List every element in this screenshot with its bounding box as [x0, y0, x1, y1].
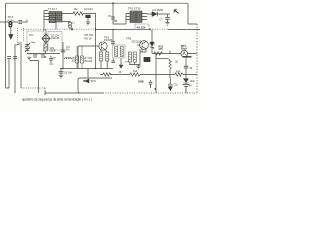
wire left border	[5, 10, 7, 88]
svg-text:R5 10K: R5 10K	[85, 33, 94, 37]
varactor VC1a	[25, 43, 30, 47]
svg-text:4A 220: 4A 220	[136, 25, 145, 29]
wire vertical x63	[62, 42, 64, 69]
wire T1 secondary lead b	[62, 21, 70, 24]
diode LED1	[183, 79, 188, 83]
wire TR2 network	[129, 62, 140, 66]
svg-text:R13: R13	[133, 71, 138, 73]
wire left col caps	[7, 57, 17, 59]
wire bias drop	[120, 59, 122, 66]
antenna coil L0	[9, 22, 12, 27]
wire R16 tail	[169, 75, 171, 79]
meter M1	[181, 50, 188, 57]
wire vertical x113 mid	[112, 29, 114, 41]
svg-text:J1: J1	[173, 11, 176, 13]
svg-text:TR3: TR3	[126, 37, 132, 41]
inductor L1	[69, 22, 72, 28]
svg-text:10KB: 10KB	[50, 49, 56, 52]
wire bus y53.5 left	[27, 53, 60, 55]
box speaker label	[144, 57, 151, 62]
svg-text:2SC945: 2SC945	[104, 40, 113, 42]
resistor R3 vertical	[44, 44, 48, 51]
svg-text:R8 220: R8 220	[85, 60, 93, 63]
resistor R16 squiggle	[169, 59, 171, 75]
wire R7 tail	[106, 61, 108, 69]
wire left vertical bus 1	[15, 42, 19, 93]
labels group	[8, 7, 195, 88]
resistor R12	[103, 73, 111, 77]
wire dashed right border	[196, 24, 198, 93]
wire dotted AGC line	[21, 28, 96, 30]
transistor TR1	[99, 42, 107, 50]
svg-text:R14: R14	[176, 70, 181, 73]
node dot 150	[149, 29, 151, 31]
svg-text:AT-5: AT-5	[8, 15, 14, 19]
transformer T1 core	[49, 12, 62, 23]
resistor R9 vertical	[120, 47, 123, 57]
wire TR2 emitter	[141, 49, 143, 52]
ground left	[27, 57, 31, 60]
svg-text:C8 104: C8 104	[64, 71, 72, 74]
box detector label	[135, 24, 149, 30]
switch SW1	[151, 47, 155, 49]
wire pi-net left	[155, 54, 157, 94]
svg-text:TR1: TR1	[104, 35, 110, 39]
ground C8	[59, 75, 63, 78]
wire vertical x113 top	[113, 3, 126, 24]
svg-text:4.7K: 4.7K	[125, 62, 130, 64]
wire D6 drop	[151, 29, 153, 53]
node junction blob	[71, 28, 73, 30]
wire main bus y68.5	[60, 68, 113, 70]
svg-text:C7: C7	[160, 19, 164, 22]
wire T1 left lead	[44, 11, 48, 32]
resistor R13	[130, 73, 140, 77]
capacitor C15	[111, 59, 115, 63]
wire R6 tail	[100, 61, 102, 69]
svg-text:50uA: 50uA	[181, 47, 187, 50]
transformer IF T2 core	[130, 11, 142, 23]
capacitor C10	[168, 78, 173, 87]
resistor R11 vertical	[128, 52, 131, 62]
resistor R6 vertical	[99, 52, 102, 61]
wire top border	[6, 3, 189, 10]
svg-text:VC1: VC1	[29, 35, 34, 37]
wire IC2 right pins	[142, 14, 147, 20]
svg-text:L1: L1	[72, 21, 75, 24]
wire vertical x78	[77, 46, 79, 69]
node antenna input wire	[0, 20, 27, 23]
battery B1	[182, 83, 189, 93]
resistor R7 vertical	[106, 52, 109, 61]
wire right border jog	[188, 3, 197, 24]
capacitor C14	[149, 80, 153, 88]
wire gnd bus y74.5	[100, 74, 197, 76]
svg-text:C9: C9	[53, 58, 57, 60]
svg-text:C3 104: C3 104	[84, 7, 93, 11]
resistor R15 inline	[154, 52, 163, 56]
wire pi-net top	[156, 58, 169, 60]
wire diode line y14	[147, 13, 170, 15]
capacitor C13	[49, 56, 53, 63]
capacitor C12	[41, 55, 45, 57]
svg-text:47u: 47u	[50, 64, 55, 66]
wire speaker feed	[87, 69, 89, 79]
resistor R8 vertical	[115, 47, 118, 57]
wire R4 R5 leads	[77, 46, 82, 69]
svg-text:C4: C4	[66, 45, 70, 49]
svg-text:SW1: SW1	[150, 43, 156, 46]
wire dotted segment right	[150, 28, 168, 30]
wire C7 drop	[167, 14, 169, 17]
svg-text:9V: 9V	[189, 83, 192, 87]
wire dashed gang link A	[17, 28, 19, 45]
wire collector x140	[140, 49, 146, 65]
transistor TR2	[140, 41, 149, 50]
node blob x156	[154, 88, 156, 90]
capacitor C4	[61, 50, 65, 52]
svg-text:470: 470	[159, 48, 164, 51]
wire bottom line dotted	[103, 92, 197, 94]
wire C6 tail	[112, 43, 114, 45]
wire TR2 base	[137, 44, 140, 46]
capacitor C5	[111, 17, 115, 19]
node dot top border	[112, 2, 114, 4]
speaker SP1	[84, 79, 90, 83]
wire C3 drop	[87, 18, 89, 22]
wire L1 bottom	[69, 28, 71, 29]
wire dashed gang link B	[23, 28, 25, 42]
varactor VC1b	[25, 47, 30, 51]
capacitor C9	[184, 66, 188, 68]
ground C7	[165, 22, 169, 25]
capacitor C7	[165, 18, 170, 20]
svg-text:LED: LED	[190, 80, 195, 83]
resistor R4 vertical	[76, 56, 79, 63]
wire left col verticals	[6, 59, 10, 88]
svg-text:aparelho de segurança da pilha: aparelho de segurança da pilha comunicaç…	[22, 98, 92, 102]
svg-text:C9: C9	[189, 67, 193, 70]
diode bridge D1-D4	[42, 34, 50, 43]
node dot mid	[44, 56, 46, 58]
inductor L2	[65, 58, 72, 59]
svg-text:B 500: B 500	[8, 20, 14, 22]
ground antenna arrow	[9, 35, 13, 40]
wire bus y46	[78, 45, 99, 47]
wire left vertical bus 2	[20, 42, 22, 88]
box tuning gang VC1	[27, 31, 44, 54]
resistor R2	[73, 12, 83, 16]
svg-text:GND: GND	[138, 80, 144, 84]
ground bias arrow	[119, 65, 123, 68]
wire vertical x95.5	[95, 14, 97, 69]
capacitor C6	[111, 41, 115, 43]
wire dotted drop	[44, 88, 46, 93]
resistor R5 vertical	[80, 56, 83, 63]
wire IC2 left pins	[126, 14, 130, 25]
svg-text:2SC1815: 2SC1815	[132, 41, 142, 43]
wire elbow	[30, 61, 39, 93]
svg-text:47u: 47u	[66, 50, 71, 52]
wire right exit line	[168, 28, 200, 30]
wire sw bus y53.5	[152, 53, 197, 55]
box output rounded	[78, 78, 112, 93]
ground C3	[86, 22, 90, 25]
capacitor C3 body	[85, 15, 90, 18]
svg-text:R6 1K: R6 1K	[85, 36, 93, 40]
box bias network	[113, 45, 125, 58]
svg-text:TR2 ST30: TR2 ST30	[128, 7, 141, 11]
svg-text:R2: R2	[74, 7, 78, 11]
resistor R10 vertical	[133, 52, 136, 62]
wire TR1 emitter	[100, 50, 102, 52]
wire dotted bottom-left link	[21, 87, 45, 89]
capacitor C1 trimmer	[19, 21, 23, 24]
transformer T1 pins	[44, 14, 49, 20]
svg-text:B1: B1	[176, 62, 180, 64]
svg-text:1K: 1K	[119, 71, 122, 74]
resistor R14	[175, 73, 183, 77]
svg-text:1N4148: 1N4148	[51, 38, 60, 40]
wire bottom line solid	[45, 92, 103, 94]
ground TR2	[136, 66, 140, 69]
wire battery drop	[185, 58, 187, 67]
svg-text:455: 455	[114, 21, 119, 23]
capacitor C8	[59, 69, 64, 76]
wire C7 tail	[167, 19, 169, 22]
wire battery drop 2	[185, 68, 187, 78]
wire main hline y13.5	[62, 13, 96, 15]
svg-text:T1 10.7: T1 10.7	[48, 7, 58, 11]
wire antenna drop	[10, 27, 12, 35]
wire sw tick	[169, 51, 171, 54]
svg-text:C10: C10	[174, 85, 179, 87]
wire bridge stub	[45, 29, 47, 34]
box amp IC1	[48, 32, 62, 51]
ground C10 arrow	[168, 87, 172, 91]
wire R3 leads	[45, 43, 47, 54]
node tick	[95, 28, 97, 31]
node dot x95	[95, 68, 97, 70]
diode D5	[152, 12, 158, 17]
svg-text:SP 8: SP 8	[91, 80, 97, 83]
svg-text:D1 1N60: D1 1N60	[153, 8, 164, 12]
node dot x63	[62, 68, 64, 70]
node bottom tick	[15, 91, 45, 95]
node dot 113	[112, 29, 114, 31]
battery plate	[183, 56, 192, 58]
wire mid top line	[96, 28, 151, 30]
wire TR1 collector	[106, 50, 108, 52]
svg-text:260p: 260p	[31, 42, 37, 44]
diode D6	[150, 42, 154, 47]
jack J1	[174, 9, 179, 14]
svg-text:D1-D4: D1-D4	[51, 33, 59, 37]
capacitor C11	[33, 55, 37, 57]
wire T1 secondary lead a	[49, 23, 56, 30]
